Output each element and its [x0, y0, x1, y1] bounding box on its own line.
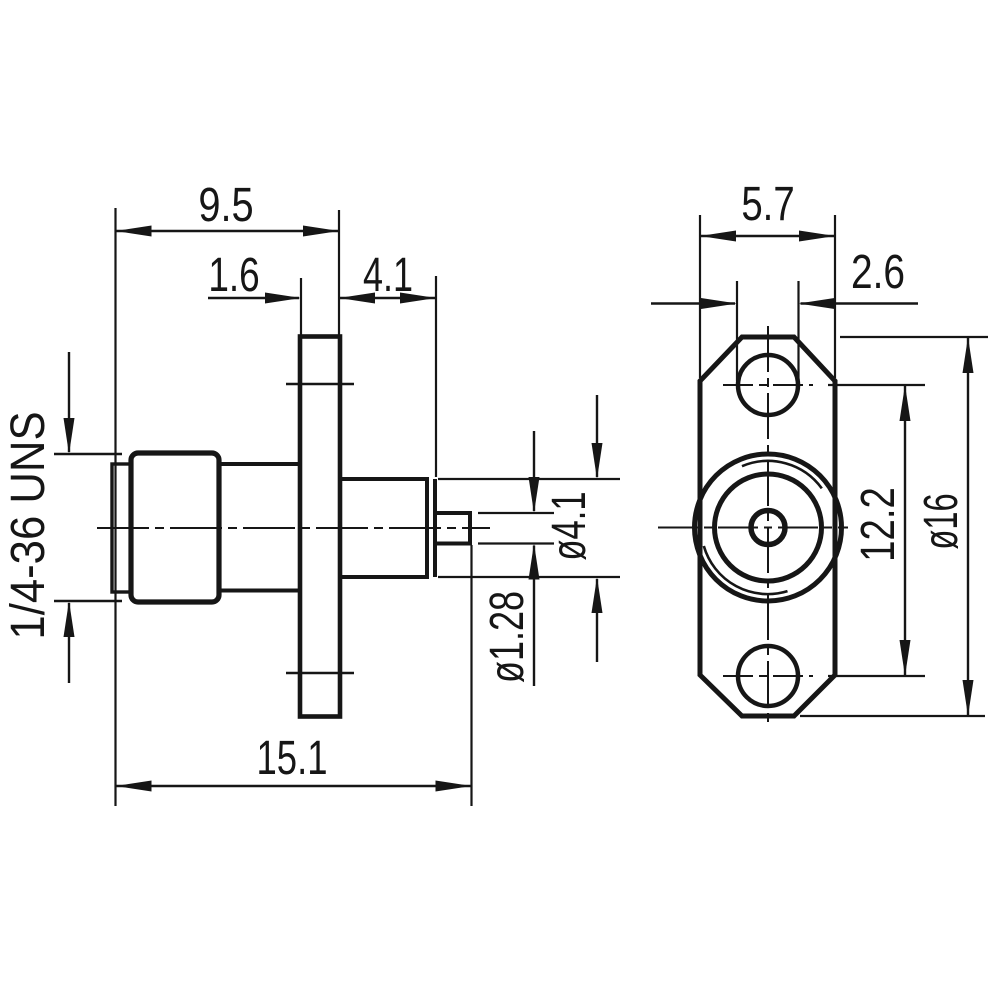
svg-text:ø1.28: ø1.28 — [480, 591, 533, 683]
svg-text:2.6: 2.6 — [851, 245, 905, 299]
arrow 5.7 right — [799, 231, 835, 242]
arrow 1.6 pointing right — [265, 293, 301, 304]
dimension line 15.1 — [116, 785, 472, 787]
extension from top hole center (12.2) — [828, 384, 925, 386]
flange side view rectangle — [300, 337, 340, 717]
thread extent tick top — [54, 453, 122, 455]
svg-text:1/4-36 UNS: 1/4-36 UNS — [0, 411, 54, 639]
svg-text:12.2: 12.2 — [852, 487, 905, 562]
dia 4.1 arrow down — [592, 443, 603, 479]
flange hole mark bottom (side view) — [286, 672, 354, 674]
dia 1.28 arrow down — [529, 477, 540, 513]
extension line at flange right face — [338, 210, 340, 336]
extension tick pin bottom (dia 1.28) — [478, 542, 554, 544]
barrel end face line 2 — [433, 479, 437, 577]
thread dim line upper segment — [68, 352, 70, 452]
rear barrel bottom line — [340, 575, 429, 579]
extension line flange bottom (dia 16) — [800, 715, 985, 717]
extension from bottom hole center (12.2) — [828, 675, 925, 677]
extension line flange right (5.7) — [834, 215, 836, 378]
center contact circle — [751, 511, 785, 545]
arrow 9.5 right — [303, 226, 339, 237]
arrow 12.2 down — [900, 640, 911, 676]
extension tick barrel bottom (dia 4.1) — [438, 576, 620, 578]
bottom hole horizontal centerline — [723, 675, 813, 677]
svg-text:4.1: 4.1 — [363, 248, 413, 301]
extension line at pin end — [470, 545, 472, 806]
insulator circle — [715, 474, 822, 581]
extension line hole left tangent (2.6) — [736, 281, 738, 381]
arrow dia 16 down — [963, 680, 974, 716]
arrow 9.5 left — [116, 226, 152, 237]
dim leader 2.6 left — [651, 302, 735, 304]
top mounting hole — [738, 355, 798, 415]
svg-text:9.5: 9.5 — [198, 179, 253, 232]
arrow 15.1 right — [436, 781, 472, 792]
arrow 12.2 up — [900, 385, 911, 421]
extension line at barrel end — [435, 276, 437, 477]
dia 4.1 dim line lower — [596, 579, 598, 662]
thread dim arrow down — [64, 418, 75, 454]
dia 1.28 arrow up — [529, 544, 540, 580]
dimension line 12.2 — [904, 385, 906, 676]
arrow 4.1 left — [339, 293, 375, 304]
dimension line 4.1 — [339, 297, 436, 299]
dimension line 5.7 — [700, 235, 835, 237]
centerline of left view (dash-dot) — [97, 527, 490, 529]
dia 1.28 dim line lower — [533, 546, 535, 687]
flange hole mark top (side view) — [286, 383, 354, 385]
svg-text:ø16: ø16 — [914, 493, 968, 549]
arrow 4.1 right — [400, 293, 436, 304]
threaded nut body (1/4-36 UNS section) — [131, 453, 219, 602]
extension line flange top (dia 16) — [840, 336, 988, 338]
svg-text:15.1: 15.1 — [257, 731, 328, 785]
dia 1.28 dim line upper — [533, 431, 535, 511]
extension line flange left (5.7) — [699, 215, 701, 378]
rear barrel top line — [340, 477, 429, 481]
vertical centerline right view — [767, 326, 769, 727]
body section between nut and flange, top line — [217, 462, 300, 466]
dimension leader 1.6 — [208, 297, 299, 299]
dia 4.1 arrow up — [592, 577, 603, 613]
arrow 5.7 left — [700, 231, 736, 242]
contact pin outline — [437, 513, 470, 544]
thread extent tick bottom — [54, 600, 122, 602]
dimension line 9.5 — [116, 230, 340, 232]
top hole horizontal centerline — [723, 384, 813, 386]
extension line at flange left face — [300, 278, 302, 336]
arrow 2.6 pointing right — [701, 298, 737, 309]
bottom mounting hole — [738, 646, 798, 706]
extension line hole right tangent (2.6) — [797, 281, 799, 381]
thread dim arrow up — [64, 601, 75, 637]
arrow 2.6 pointing left — [799, 298, 835, 309]
svg-text:ø4.1: ø4.1 — [541, 491, 595, 560]
outer thread circle — [695, 454, 842, 601]
thread dim line lower segment — [68, 603, 70, 683]
svg-text:1.6: 1.6 — [208, 248, 259, 302]
dia 4.1 dim line upper — [596, 395, 598, 477]
thread root arc (thin, top) — [742, 461, 822, 488]
coupling step (front small cylinder) — [112, 464, 131, 592]
svg-text:5.7: 5.7 — [741, 178, 794, 231]
thread root arc (thin, bottom-left) — [704, 546, 788, 594]
flange outline octagon — [700, 337, 835, 716]
extension tick barrel top (dia 4.1) — [438, 478, 620, 480]
body section bottom line — [217, 589, 300, 593]
horizontal centerline central circles — [658, 527, 848, 529]
barrel end face line 1 — [425, 479, 429, 577]
arrow dia 16 up — [963, 337, 974, 373]
extension line left (front face) — [114, 208, 116, 806]
extension tick pin top (dia 1.28) — [478, 512, 554, 514]
dim leader 2.6 right — [801, 302, 919, 304]
dimension line dia 16 — [967, 337, 969, 716]
arrow 15.1 left — [116, 781, 152, 792]
